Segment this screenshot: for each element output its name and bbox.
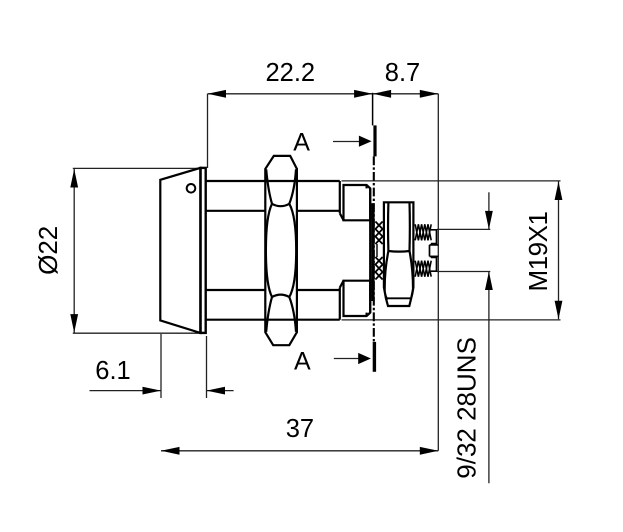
dimension Ø22 [33, 168, 204, 333]
body end face edge [369, 188, 371, 312]
bezel (front flange cone) [160, 168, 200, 333]
flange plate [201, 168, 206, 333]
step at end of body sleeve [339, 181, 341, 213]
dimension 6.1 [90, 334, 234, 398]
svg-text:6.1: 6.1 [95, 357, 130, 385]
svg-text:Ø22: Ø22 [33, 226, 63, 275]
hex nut flats on body [265, 156, 297, 345]
dimension 37 [161, 415, 438, 455]
svg-text:22.2: 22.2 [265, 59, 315, 87]
spring washer (zigzag) bottom [375, 257, 382, 280]
dimension M19X1 [342, 181, 563, 320]
9/32 thread stub top band: thread zigzag [415, 224, 431, 240]
9/32 thread stub bottom band: thread zigzag [415, 261, 431, 277]
hex nut behind panel [384, 202, 414, 306]
9/32 stub bottom plain end [431, 257, 437, 271]
M19 thread block top [344, 185, 371, 220]
svg-text:9/32 28UNS: 9/32 28UNS [452, 337, 482, 479]
svg-text:A: A [294, 348, 311, 376]
spring washer (zigzag) top [375, 222, 382, 245]
svg-text:M19X1: M19X1 [523, 212, 553, 292]
dimension 8.7 [373, 59, 439, 98]
M19 thread block bottom [344, 281, 371, 316]
9/32 stub top plain end [431, 230, 437, 244]
svg-text:8.7: 8.7 [385, 59, 420, 87]
dimension 9/32 28UNS [437, 192, 493, 483]
section arrow A bottom [334, 358, 360, 360]
body cylinder outline [206, 180, 340, 182]
section cutting line / panel centerline (dash-dot) [372, 93, 374, 126]
extension line left of 22.2 [207, 94, 209, 168]
section arrow A top [333, 141, 361, 143]
9/32 thread stub: middle cylinder [430, 244, 439, 246]
pin hole on bezel [187, 184, 196, 193]
dimension 22.2 [208, 59, 373, 98]
svg-text:37: 37 [286, 415, 314, 443]
svg-text:A: A [293, 128, 310, 156]
body inner lines (smaller cylinder silhouette) [206, 210, 265, 212]
spring washer inner edge connector [376, 244, 378, 257]
extension line right of 8.7 down to 37 dimension [437, 94, 439, 451]
panel edge (thick black strip) [371, 203, 374, 301]
